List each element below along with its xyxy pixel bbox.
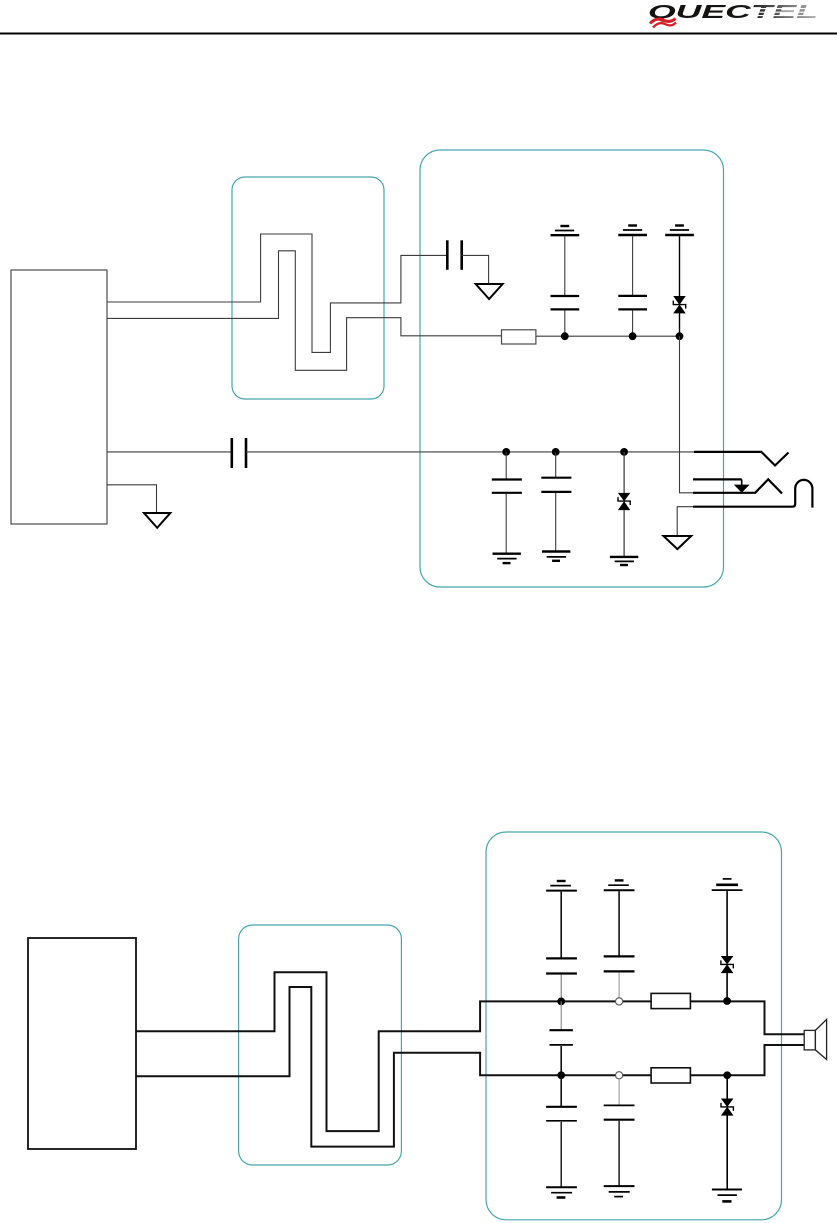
- ground under C6: [542, 552, 570, 561]
- TVS diode D2: [618, 452, 630, 557]
- speaker LS1: [804, 1019, 826, 1059]
- wire trace A2 (meander + top rail to speaker): [136, 972, 804, 1131]
- capacitor C1 (series, horizontal): [447, 240, 461, 269]
- ground (triangle, C1): [476, 284, 503, 299]
- teal box: external circuit 2: [486, 832, 782, 1220]
- ground (flipped) over TVS D3: [712, 879, 743, 890]
- junction dot node 10: [557, 1071, 565, 1079]
- junction dot node 12: [723, 1071, 731, 1079]
- ground under C11: [604, 1186, 635, 1197]
- capacitor C5: [492, 452, 522, 554]
- headphone jack: switch contact with arrow: [693, 479, 750, 492]
- ground (flipped) over C3: [618, 226, 647, 236]
- teal box: meander 1: [232, 177, 384, 399]
- ground under C5: [493, 554, 521, 563]
- capacitor C7: [546, 892, 577, 1002]
- ground (flipped) over C2: [551, 226, 580, 235]
- wire C1 to ground: [462, 255, 489, 284]
- junction dot node 1: [561, 332, 569, 340]
- ground under C10: [546, 1187, 577, 1197]
- ground under D4: [712, 1190, 742, 1202]
- teal box: external circuit 1: [420, 150, 724, 587]
- headphone jack: sleeve with hook: [693, 480, 812, 508]
- junction dot node 9: [723, 997, 731, 1005]
- Quectel logo text: [648, 1, 821, 22]
- capacitor C3: [618, 236, 647, 336]
- module block 1: [11, 270, 107, 524]
- capacitor C2: [551, 236, 580, 336]
- Quectel logo red swoosh: [650, 19, 676, 28]
- junction dot node 3: [676, 332, 684, 340]
- ground (flipped) over TVS D1: [665, 226, 694, 236]
- wire trace B2 (meander + bottom rail to speaker): [136, 987, 804, 1147]
- TVS diode D4: [721, 1075, 733, 1189]
- headphone jack: tip contact with spring: [694, 452, 789, 466]
- junction dot node 5: [552, 448, 560, 456]
- module block 2: [28, 938, 136, 1149]
- resistor R1: [502, 330, 536, 344]
- wire lower rail from module: [107, 451, 231, 453]
- junction dot node 7: [557, 998, 565, 1006]
- headphone jack: ring/mic contact: [693, 479, 782, 493]
- module 1 ground stub wire: [107, 485, 157, 513]
- wire lower rail to jack: [246, 451, 694, 453]
- ground under D2: [610, 557, 638, 565]
- wire trace A (meander): [107, 234, 447, 352]
- header rule: [0, 33, 837, 35]
- junction dot node 4: [502, 448, 510, 456]
- capacitor C8: [604, 891, 635, 997]
- ground (module 1): [144, 513, 170, 528]
- resistor R3: [651, 1068, 690, 1083]
- TVS diode D3: [721, 891, 733, 1001]
- ground (flipped) over C7: [546, 881, 577, 891]
- open circle node 8: [616, 998, 623, 1005]
- wire rail (R1 to TVS): [536, 335, 680, 337]
- wire sleeve to ground: [677, 507, 693, 536]
- resistor R2: [651, 993, 690, 1008]
- junction dot node 2: [629, 332, 637, 340]
- open circle node 11: [616, 1072, 623, 1079]
- junction dot node 6: [620, 448, 628, 456]
- wire trace B (meander): [107, 251, 502, 370]
- capacitor C10: [546, 1075, 577, 1187]
- capacitor C6: [541, 452, 571, 552]
- capacitor C9 (between rails): [550, 1001, 573, 1075]
- wire node3 down to jack mic contact: [680, 336, 694, 493]
- teal box: meander 2: [239, 925, 402, 1165]
- TVS diode D1: [673, 236, 685, 336]
- ground (jack sleeve): [664, 536, 692, 549]
- ground (flipped) over C8: [604, 880, 635, 890]
- capacitor C11: [604, 1079, 635, 1186]
- capacitor C4 (series, on lower rail): [232, 438, 246, 468]
